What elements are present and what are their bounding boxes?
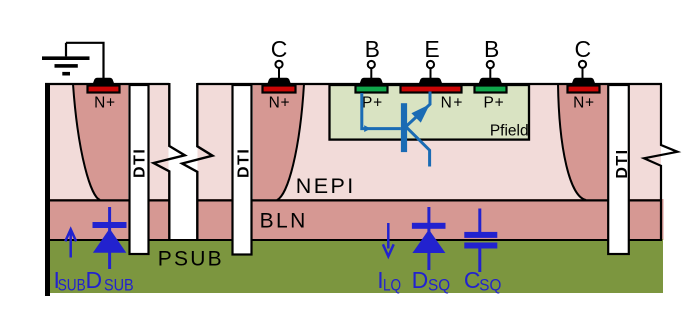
left thick border <box>45 83 50 296</box>
svg-text:C: C <box>464 267 481 293</box>
N+ region 0 (grounded) <box>88 86 120 93</box>
svg-text:SUB: SUB <box>58 276 86 295</box>
transistor Q1 emitter wire <box>407 92 431 127</box>
terminal E stem <box>430 68 432 79</box>
terminal C right circle <box>579 61 586 68</box>
BLN layer <box>48 199 664 240</box>
PSUB layer <box>48 239 663 293</box>
terminal C right stem <box>582 68 584 79</box>
Pfield box <box>330 85 530 140</box>
n-well 2 (C collector sinker) <box>253 84 304 200</box>
current arrow I_SUB <box>69 231 72 258</box>
n-well 1 (left, grounded collector) <box>73 84 128 200</box>
surface line (left of break) <box>45 83 169 85</box>
terminal C left stem <box>278 68 280 79</box>
transistor Q1 collector wire <box>407 127 430 166</box>
diode D_SQ <box>412 207 446 270</box>
svg-text:C: C <box>574 36 591 62</box>
svg-text:D: D <box>412 267 429 293</box>
contact B left <box>359 78 383 85</box>
NEPI layer <box>48 84 661 201</box>
DTI trench 2 <box>233 85 252 255</box>
svg-text:B: B <box>484 36 499 62</box>
P+ region B right <box>475 86 507 93</box>
terminal E circle <box>427 61 434 68</box>
svg-text:Pfield: Pfield <box>490 122 529 139</box>
terminal B right stem <box>489 68 491 79</box>
NEPI/BLN boundary line <box>48 199 661 201</box>
contact 0 (ground) <box>92 78 114 85</box>
svg-text:D: D <box>86 267 103 293</box>
diode D_SUB <box>93 207 127 269</box>
transistor Q1 base wire from P+ <box>362 93 401 129</box>
svg-text:DTI: DTI <box>614 148 631 178</box>
svg-text:B: B <box>365 36 380 62</box>
svg-text:BLN: BLN <box>260 209 308 232</box>
n-well 3 (right C collector sinker) <box>558 84 607 200</box>
svg-text:PSUB: PSUB <box>158 247 224 270</box>
svg-text:DTI: DTI <box>236 148 253 178</box>
svg-text:N+: N+ <box>441 95 464 112</box>
contact B right <box>478 78 502 85</box>
svg-text:N+: N+ <box>94 95 116 112</box>
terminal B left stem <box>370 68 372 79</box>
capacitor C_SQ <box>464 209 497 273</box>
transistor Q1 emitter arrow <box>411 104 429 122</box>
P+ region B left <box>356 86 388 93</box>
N+ region C left <box>263 86 296 93</box>
svg-text:DTI: DTI <box>132 148 149 178</box>
N+ region E <box>401 86 462 93</box>
svg-text:SQ: SQ <box>479 276 501 295</box>
break zigzag left edge <box>154 83 185 239</box>
svg-text:SQ: SQ <box>428 276 450 295</box>
contact E <box>418 78 442 85</box>
svg-text:SUB: SUB <box>104 276 134 294</box>
svg-text:N+: N+ <box>269 95 291 112</box>
DTI trench 1 <box>130 85 149 254</box>
svg-text:E: E <box>424 36 439 62</box>
break gap (white cut-out) <box>169 82 198 239</box>
svg-text:C: C <box>271 36 288 62</box>
svg-text:P+: P+ <box>484 95 505 112</box>
contact C right <box>571 78 595 85</box>
svg-text:P+: P+ <box>362 95 383 112</box>
BLN/PSUB boundary line <box>48 239 662 241</box>
svg-text:N+: N+ <box>573 95 595 112</box>
ground symbol <box>42 43 90 76</box>
N+ region C right <box>568 86 600 93</box>
transistor Q1 base bar <box>401 103 407 152</box>
current arrow I_LQ <box>387 223 390 249</box>
terminal C left circle <box>275 61 282 68</box>
DTI trench 3 <box>608 85 629 254</box>
contact C left <box>267 78 291 85</box>
terminal B right circle <box>487 61 494 68</box>
terminal B left circle <box>368 61 375 68</box>
break zigzag right edge <box>182 83 212 239</box>
svg-text:LQ: LQ <box>383 276 401 295</box>
right border with zigzag break <box>644 84 678 240</box>
svg-text:NEPI: NEPI <box>296 174 356 198</box>
base wire arrow <box>364 125 371 132</box>
surface line (right of break) <box>197 83 662 85</box>
ground wire <box>66 43 104 78</box>
